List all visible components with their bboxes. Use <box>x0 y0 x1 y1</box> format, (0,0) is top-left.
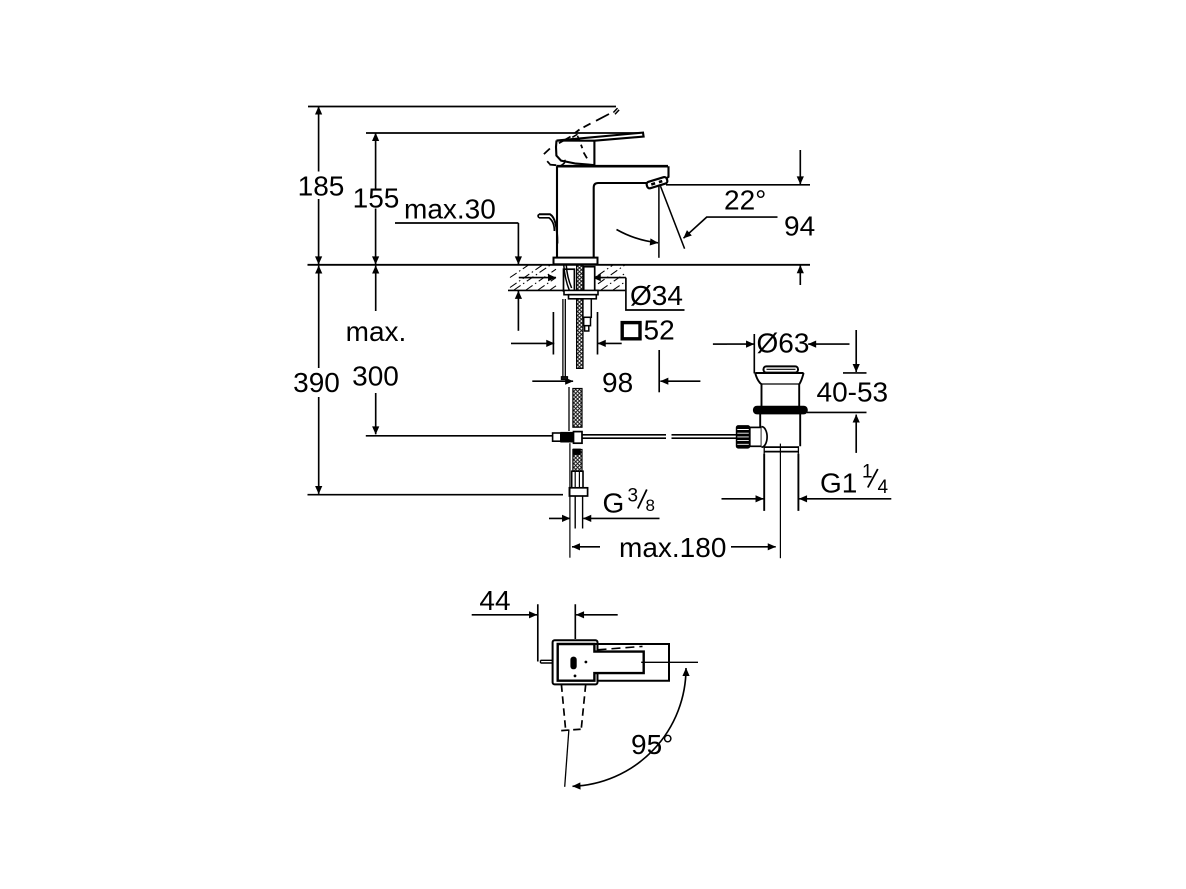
open handle dashed right edge <box>581 145 587 159</box>
44 dimension arrows <box>472 614 537 616</box>
threaded shank rod <box>577 265 583 368</box>
drain dome cap <box>764 366 799 372</box>
max.180 dimension left arrow <box>572 546 600 548</box>
flexible hose lower segment <box>573 450 582 472</box>
40-53 upper arrow <box>855 330 857 372</box>
drain neck <box>762 384 800 406</box>
svg-text:44: 44 <box>479 585 510 616</box>
svg-text:max.180: max.180 <box>619 532 726 563</box>
plan lever hidden edge dashed <box>598 646 643 649</box>
G1 1/4 dimension arrows <box>722 498 764 500</box>
max.180 dimension right arrow <box>731 546 776 548</box>
knob collar <box>750 427 762 446</box>
faucet body right edge and chamfer <box>663 166 669 181</box>
plan view lever outline <box>594 644 669 681</box>
drain body <box>760 414 800 446</box>
knuckle crease <box>561 160 566 166</box>
svg-text:40-53: 40-53 <box>817 377 889 408</box>
rotated axis line <box>565 730 569 787</box>
22deg leader line with arrow <box>684 217 778 238</box>
faucet axis centerline <box>569 443 571 558</box>
svg-text:98: 98 <box>602 367 633 398</box>
dia34 dimension arrows <box>519 277 532 279</box>
dimension 155 vertical line <box>375 133 377 189</box>
svg-text:max.: max. <box>346 316 407 347</box>
countertop surface line <box>308 264 811 266</box>
svg-text:Ø63: Ø63 <box>757 328 810 359</box>
98 extension line (spout axis) <box>658 350 660 392</box>
svg-text:8: 8 <box>646 496 655 515</box>
max.30 leader <box>395 222 518 224</box>
sq52 extension lines <box>553 312 597 355</box>
svg-text:G1: G1 <box>820 468 857 499</box>
knuckle inner dash <box>572 133 581 143</box>
svg-text:G: G <box>603 488 625 519</box>
svg-text:390: 390 <box>293 367 340 398</box>
spout underside and inner corner <box>594 183 647 258</box>
handle knuckle <box>556 141 594 166</box>
svg-text:1: 1 <box>862 462 873 483</box>
svg-text:94: 94 <box>784 211 815 242</box>
knurled adjuster knob <box>736 426 750 449</box>
rod level extension line (max300 reference) <box>366 435 553 437</box>
svg-text:max.30: max.30 <box>404 194 496 225</box>
svg-text:Ø34: Ø34 <box>630 280 683 311</box>
square52 symbol <box>622 323 640 339</box>
handle neck <box>593 141 595 166</box>
right mounting piece <box>584 267 595 292</box>
dimension max300 <box>375 266 377 311</box>
svg-text:52: 52 <box>644 315 675 346</box>
swivel spout dashed position <box>561 684 585 729</box>
hose end fitting <box>572 471 583 488</box>
pop-up rod lower section to tee <box>568 387 570 431</box>
plan view escutcheon square <box>553 640 598 684</box>
pop-up rod foot <box>561 377 567 380</box>
faucet handle lever (closed) <box>557 133 644 141</box>
spout height reference line (94 top) <box>666 184 810 186</box>
G3/8 dimension arrows <box>549 517 570 519</box>
rod tee joint <box>553 433 561 441</box>
knuckle facet line <box>559 137 571 144</box>
flexible hose upper segment <box>573 389 582 428</box>
countertop bottom line <box>508 289 625 291</box>
top reference line (185 level) <box>308 106 616 108</box>
open handle dashed top edge <box>575 114 609 133</box>
aerator <box>646 176 668 188</box>
svg-text:3: 3 <box>628 486 639 507</box>
dimension 185 vertical line <box>318 107 320 172</box>
dimension 94 lower arrow <box>799 265 801 285</box>
O-ring seal band <box>753 406 807 414</box>
countertop hatching left <box>510 265 556 290</box>
40-53 lower reference line <box>807 411 867 413</box>
drain axis centerline <box>779 444 781 559</box>
40-53 upper reference stub <box>843 372 867 374</box>
drain tailpipe <box>764 454 798 511</box>
40-53 lower arrow <box>855 415 857 453</box>
left mounting piece <box>564 269 575 291</box>
svg-text:95°: 95° <box>631 729 673 760</box>
drain body joint lines <box>764 447 798 452</box>
water stream line at 22deg <box>661 186 685 249</box>
max.30 lower arrow below countertop <box>517 291 519 331</box>
pop-up rod curve behind flange <box>564 266 572 291</box>
pop-up pull rod hook <box>539 214 557 243</box>
svg-text:22°: 22° <box>724 185 766 216</box>
95deg swivel arc <box>573 668 687 786</box>
drain flare <box>755 372 803 374</box>
98 dimension arrows <box>532 380 549 382</box>
faucet body top shoulder <box>557 165 669 168</box>
cartridge blob <box>570 657 576 670</box>
svg-text:300: 300 <box>352 361 399 392</box>
svg-text:185: 185 <box>298 171 345 202</box>
dia34 label leader elbow <box>626 278 685 310</box>
horizontal pop-up rod to drain <box>582 435 666 438</box>
G3/8 connection nut <box>569 488 587 496</box>
faucet body left edge <box>556 166 558 257</box>
dia63 left extension line <box>753 334 755 373</box>
countertop hatching right <box>598 265 625 290</box>
390 bottom reference line (G3/8 level) <box>308 494 564 496</box>
vertical reference line under spout <box>658 186 660 258</box>
open handle dashed left edge <box>544 149 556 166</box>
plan view body and spout outline <box>558 644 644 681</box>
spout swing arc arrow <box>617 230 659 243</box>
open handle dashed tip <box>613 108 619 114</box>
svg-text:155: 155 <box>353 183 400 214</box>
sq52 dimension arrows <box>511 342 530 344</box>
plan axis centerline <box>641 661 698 663</box>
dimension 390 <box>318 266 320 368</box>
svg-text:4: 4 <box>878 477 889 498</box>
pop-up rod below nut <box>563 299 565 377</box>
dimension 94 upper arrow <box>799 150 801 184</box>
mounting nut under countertop <box>564 290 598 294</box>
ball joint bulge <box>762 427 768 448</box>
dia63 dimension arrows <box>713 343 727 345</box>
base flange <box>554 258 598 265</box>
reference line (155 level) <box>366 132 644 134</box>
fixing screw stack <box>583 299 591 318</box>
pop-up rod in plan <box>541 660 553 663</box>
supply pipe end <box>575 496 582 529</box>
44 extension lines <box>538 604 576 661</box>
